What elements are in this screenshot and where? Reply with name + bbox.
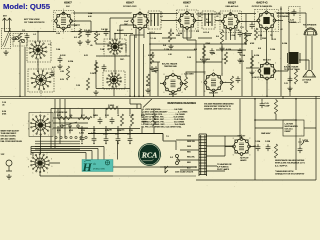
antenna ANT2 [8,18,12,26]
label value OSC. [120,59,125,61]
wire V3 to T2 [195,20,224,22]
resistor R11 coupling [184,77,187,90]
svg-text:4: 4 [40,175,41,177]
loop antenna L1 frame [2,29,11,49]
svg-text:6: 6 [257,29,258,31]
svg-text:5: 5 [187,32,188,34]
label value C-8 [196,31,199,33]
wire heater line A [0,95,320,97]
socket S5 frame [29,113,53,137]
svg-text:S-2: S-2 [170,157,173,159]
wire V3 plate lead [186,12,188,15]
label L17b [304,82,308,84]
label T4 lead GRN-YEL 2 [187,141,195,143]
label part C-5A 32 [100,48,105,51]
wire bus line 4 [143,44,145,96]
label part R-10A 27 [226,48,232,51]
svg-text:C-16A: C-16A [270,48,276,51]
wire right links [255,119,296,121]
svg-text:3: 3 [75,21,76,23]
wire bleeder taps [262,99,276,120]
output transformer T3 core [288,52,301,64]
svg-text:TWISTED PAIR: TWISTED PAIR [164,65,177,68]
svg-text:I.F.: I.F. [186,6,189,8]
svg-text:R-5: R-5 [206,19,209,21]
IF transformer T1 windings [151,13,158,26]
capacitor C7A [260,101,265,108]
svg-text:WAVE TRAP ADJUST: WAVE TRAP ADJUST [1,130,20,133]
pin numbers V2 [128,9,152,34]
note resistance line3 [275,164,288,167]
label L16 line4 [285,131,291,133]
svg-text:C-24: C-24 [90,73,94,75]
svg-text:7: 7 [218,21,219,23]
wire V7 plate [182,72,206,84]
svg-text:7: 7 [51,21,52,23]
coil L4 oscillator transformer [31,70,51,90]
capacitor C15 box [289,7,301,23]
label switch part C-29 11 [129,115,133,117]
label C20B [127,134,131,136]
svg-text:2.2M: 2.2M [117,130,121,132]
label part R-2 19 [74,37,77,39]
svg-text:4: 4 [222,91,223,93]
svg-text:* MEASURED WITH: * MEASURED WITH [275,170,294,173]
svg-text:GRN: GRN [187,136,192,138]
wire socket links [41,125,61,163]
svg-text:R-4: R-4 [163,45,166,47]
wire x170 drop2 [162,134,164,141]
ground g10 [145,88,150,93]
svg-text:6: 6 [258,79,259,81]
label part R-18A 31 [282,42,288,45]
label L16 line3 [285,129,293,131]
svg-text:R-29: R-29 [141,115,145,117]
label C19A [79,132,85,135]
svg-text:R-19: R-19 [105,130,109,132]
wire long row y62 [150,61,222,63]
svg-text:L-6 1ST I-F TRANS. PRI. . .: L-6 1ST I-F TRANS. PRI. . . . . . . . . … [142,115,185,118]
svg-text:2: 2 [148,12,149,14]
label part R-12A 29 [254,54,260,57]
svg-text:1: 1 [32,173,33,175]
svg-text:A.C. SUPPLY.: A.C. SUPPLY. [275,164,288,167]
note heaters line1 [217,163,233,166]
paper speckle noise [0,0,315,187]
svg-text:7: 7 [229,146,230,148]
svg-text:4-30: 4-30 [88,16,92,18]
wire heater line B [0,98,320,100]
tube shield V5 [255,10,279,32]
capacitor C14 [236,76,241,83]
label part R-25 37 [60,79,64,81]
resistor R41 [146,74,149,86]
ground g4 [287,86,292,91]
ground C3 [85,39,90,44]
svg-text:2: 2 [238,13,239,15]
wire V4 cathode [230,29,232,40]
label C19C [120,130,126,132]
svg-text:RESISTANCE READINGS: RESISTANCE READINGS [168,102,197,105]
resistor R22 filter [274,144,277,158]
ground g9 [149,66,154,71]
IF transformer T2 windings [205,13,212,26]
label value C-2 [74,25,77,27]
svg-text:C-15A: C-15A [240,54,246,57]
watermark emblem [105,161,109,165]
tube V4 6SQ7 demod-AVC-audio [221,12,240,31]
wire v9 top [240,136,242,139]
wire row y88 [96,60,130,89]
label switch part C-18 4 [105,115,109,117]
label V4 function [226,5,240,8]
svg-text:R-27: R-27 [52,67,56,69]
label value R-5 [216,36,219,38]
resistor R1 ant shunt [18,33,21,42]
speaker magnet dome outer [304,28,317,35]
tube V5 6AD7-G output phase inverter [256,10,276,30]
label value R-20 [146,85,150,87]
wire left col drop [20,42,25,96]
svg-text:T-1 PRI. 27.5 OHMS SEC. 0.4: T-1 PRI. 27.5 OHMS SEC. 0.45 OHM TOTAL [142,126,183,129]
resistor R40 [150,52,153,64]
svg-text:6SA7: 6SA7 [126,1,134,5]
wire antenna to grid [5,26,57,32]
resistor R15 tone [58,116,72,119]
svg-text:R-14: R-14 [258,35,262,37]
capacitor C34 [58,56,63,63]
label V5 function [252,5,273,8]
svg-text:WITH A 20% TOLERANCE 117 V.: WITH A 20% TOLERANCE 117 V. [275,162,305,165]
svg-text:8: 8 [28,129,29,131]
svg-text:1: 1 [33,135,34,137]
label switch part R-19 9 [105,130,109,132]
ground g1 [93,90,98,95]
wire switch drops [58,109,154,119]
label part R-4A 21 [178,32,183,35]
svg-text:C-13A: C-13A [164,48,170,51]
table row 5 [142,118,186,121]
svg-text:2: 2 [182,74,183,76]
svg-text:8: 8 [258,62,259,64]
svg-text:8: 8 [233,138,234,140]
svg-text:C-16: C-16 [187,57,191,59]
shield can L3 frame [27,41,51,62]
shield can L6 frame [103,71,125,89]
svg-text:1ST.DET.-OSC.: 1ST.DET.-OSC. [123,6,137,8]
wire switch section right [137,104,141,109]
svg-text:4: 4 [275,79,276,81]
label part C-26 38 [76,85,80,87]
label value .01MF [205,43,211,45]
svg-text:DEM.-AVC-A.F.: DEM.-AVC-A.F. [226,5,240,8]
label value L-2B [60,71,65,73]
label part 100 1 [198,16,201,18]
capacitor C35 [50,70,55,77]
pin numbers V3 [175,9,199,34]
resistor R12 [230,76,233,90]
wire V8 drop [213,91,215,97]
capacitor C20A [116,136,121,143]
wire top bus segment A [73,12,131,14]
svg-text:L-9 2ND I-F TRANS. SEC. . .: L-9 2ND I-F TRANS. SEC. . . . . . . . . … [142,123,186,126]
svg-text:R-18: R-18 [57,130,61,132]
label part C-10 4 [216,13,220,15]
svg-text:3: 3 [225,82,226,84]
wire row y38 mid [162,37,212,39]
svg-text:C-19C: C-19C [103,134,109,136]
note alignment line3 [1,135,17,138]
resistor R17 [120,114,123,126]
wire V1 grid row [71,31,110,33]
label C19C [103,134,109,136]
label C19B [91,133,97,135]
wire rect leads [225,147,255,157]
wire top bus segment E [276,12,289,14]
svg-text:PILOT LAMPS: PILOT LAMPS [217,168,230,171]
label T4 lead RED 6 [187,162,191,164]
label C9 value [236,30,239,32]
shield can L5 frame [104,39,126,56]
wire left col verticals [55,99,65,148]
speaker magnet dome [305,29,316,35]
svg-text:1: 1 [187,9,188,11]
wire long row y68 [246,67,259,69]
table row 1 [142,108,183,111]
socket V2 bottom view [30,153,49,173]
capacitor C3 V1 bypass [86,30,91,37]
phono plug P1 [6,160,12,171]
label part R-8 25 [194,49,197,51]
wire L5 to L6 [114,54,116,72]
tube V3 6SK7 I.F. amplifier [177,11,196,30]
power transformer T4 windings [199,134,207,176]
pin labels socket S6 [28,150,53,177]
shield can L4 frame [28,69,54,92]
label C15 value [289,22,297,24]
table row 2 [142,110,189,113]
label part C-9A 20 [170,32,175,35]
IF transformer T1 can [148,11,161,29]
note bottom view of sockets line2 [24,22,45,24]
label switch part R-29 12 [141,115,145,117]
label part L-9 13 [160,16,163,18]
label part R-21 33 [84,55,88,57]
wire far right rail [315,96,317,180]
resistor R5 IF grid [168,30,171,42]
label value R-2 68 [60,55,65,57]
wire V4 plate lead [230,13,232,15]
wire long row y56 [96,55,130,57]
wire switch bottoms [58,126,154,134]
label switch part 470K 6 [69,130,74,132]
logo RCA circle [138,143,161,166]
label T4 lead GRN 3 [187,146,192,148]
label switch part R-18 5 [57,130,61,132]
wire L16 leads [255,127,316,129]
wire V5 to V6 [266,29,268,64]
table resistance title [168,102,197,105]
svg-text:CHANALYST OR VOLTOHMYST: CHANALYST OR VOLTOHMYST [275,173,305,176]
svg-text:R-28: R-28 [127,134,131,136]
label 12P [1,154,5,156]
wire V3 cathode [187,28,196,40]
label value R-14 270 [252,77,259,79]
label part C-12 .01 6 [244,35,251,37]
svg-text:2: 2 [275,62,276,64]
svg-text:6: 6 [164,92,165,94]
label antenna A [3,15,8,18]
capacitor C23B filter [266,144,271,151]
capacitor C17 [98,117,103,124]
wire junction dots [19,8,297,168]
svg-text:3: 3 [253,146,254,148]
label part 220K 8 [262,38,267,40]
svg-text:8: 8 [222,13,223,15]
capacitor C9 [238,30,243,37]
svg-text:3: 3 [198,20,199,22]
label range switch [54,111,68,114]
svg-text:7: 7 [201,82,202,84]
svg-text:C-11: C-11 [240,27,244,29]
capacitor C15 [292,9,297,16]
wire bottom mid links [130,99,137,109]
svg-text:L-3 ANT. COIL SECONDARY . . .: L-3 ANT. COIL SECONDARY . . . . . . . . … [142,110,189,113]
watermark badge background [82,160,113,172]
label part C-6A 34 [56,48,61,51]
svg-text:L-1 LOOP ANTENNA . . . . . .: L-1 LOOP ANTENNA . . . . . . . . . . . .… [142,108,183,111]
svg-text:4: 4 [40,137,41,139]
label T3 [284,66,299,69]
note measured line2 [204,105,232,108]
svg-text:1: 1 [267,59,268,61]
svg-text:S-1 RANGE SW.: S-1 RANGE SW. [54,111,68,114]
svg-text:OSC ADJ 1500KC: OSC ADJ 1500KC [1,135,17,138]
label T3b [284,68,301,71]
svg-text:5: 5 [63,32,64,34]
label V1 function R-F [66,6,70,8]
wire stage row y25 [71,24,80,26]
wire speaker top [289,13,306,28]
svg-text:R-1 47K: R-1 47K [117,30,124,32]
wire dial frame leads [35,141,80,149]
pin numbers V8 [201,70,226,96]
svg-text:C-26: C-26 [76,85,80,87]
svg-text:3: 3 [278,71,279,73]
wire bus line 2 [134,35,136,96]
pin numbers V7 [160,71,186,98]
wire component row drops [82,129,130,138]
wire L3 to L4 [37,59,39,71]
wire x196 drop [195,40,197,96]
wire stage row y18 [110,18,133,40]
note bottom view of sockets line1 [24,19,40,21]
ganged tuning dashed line [38,59,41,97]
svg-text:4: 4 [148,29,149,31]
svg-text:6SK7: 6SK7 [183,1,191,5]
wire top bus segment B [149,13,178,15]
label value R-10 [240,61,244,63]
svg-text:C-21: C-21 [284,83,288,85]
note resistance line6 [275,173,305,176]
note pilot line2 [240,159,247,162]
resistor R19 [152,114,155,126]
svg-text:0: 0 [51,166,52,168]
svg-text:6SK7: 6SK7 [64,1,72,5]
tube V1 6SK7 R-F amplifier [54,11,73,30]
wire 246 rail [245,14,247,30]
resistor R35 [86,78,89,90]
wire V2 plate lead [139,12,141,15]
note pilot line1 [240,158,249,160]
label C16 value2 [2,105,5,107]
wire S5 taps [53,118,90,128]
svg-text:8: 8 [55,12,56,14]
svg-text:R-9: R-9 [258,48,261,50]
label value R-4 [163,45,166,47]
wire switch section left [50,109,52,149]
wire row y33 right [242,33,252,35]
label L3 [48,44,52,46]
tube V8 6SQ7 audio [203,72,223,92]
svg-text:.005: .005 [69,115,72,117]
label switch part .01 10 [117,115,119,117]
wire output screen rail [288,13,290,52]
label line volts [175,172,194,174]
svg-text:0: 0 [52,128,53,130]
pin labels socket S5 [28,112,53,140]
svg-text:1: 1 [173,71,174,73]
label value C-6 [124,35,127,37]
svg-text:R-17: R-17 [81,115,85,117]
svg-text:5: 5 [267,82,268,84]
note measured line3 [204,107,232,110]
resistor R33 [294,70,297,84]
svg-text:L-5 OSCILLATOR COIL . . . . .: L-5 OSCILLATOR COIL . . . . . . . . . . … [142,113,186,116]
svg-text:5: 5 [266,32,267,34]
wire screen feed [96,42,110,44]
tube V7 6SK7 2nd I.F. [162,73,183,94]
svg-text:5: 5 [28,121,29,123]
label T4 lead RED-YEL 5 [187,157,195,159]
ground g2 [201,58,206,63]
svg-text:3: 3 [51,159,52,161]
label value R-9 [258,48,261,50]
ground V1 cathode [77,40,82,45]
svg-text:RCA: RCA [141,151,158,160]
switch S1 contacts [61,122,79,127]
capacitor C19B [92,136,97,143]
wire L3 top to V1 [37,32,39,42]
label C4 value [101,29,108,31]
note resistance line5 [275,170,294,173]
resistor R16A 1 MEG [106,106,118,109]
label part 4-30 17 [88,16,92,18]
pin numbers V9 [229,135,253,160]
svg-text:R-5: R-5 [216,36,219,38]
svg-text:RED-YEL: RED-YEL [187,157,195,159]
resistor R36 [66,66,69,80]
svg-text:2: 2 [32,153,33,155]
capacitor C19C [104,136,109,143]
label V8 type [209,93,218,95]
wire grid row 2 [147,29,222,34]
trimmer box C1 area [13,34,27,47]
wire V8 out [222,82,233,84]
label value 470K [250,43,255,45]
ground plug [6,174,11,179]
note alignment line5 [1,140,23,143]
